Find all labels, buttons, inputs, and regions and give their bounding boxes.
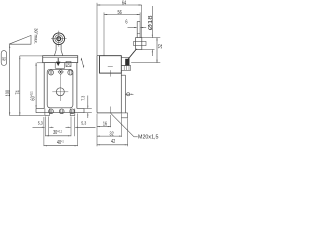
svg-text:6: 6 bbox=[125, 19, 127, 25]
svg-text:5,3: 5,3 bbox=[38, 120, 43, 126]
svg-text:40+1: 40+1 bbox=[57, 139, 64, 145]
svg-text:42: 42 bbox=[111, 138, 116, 144]
svg-text:74: 74 bbox=[15, 90, 21, 95]
svg-text:30+0,1: 30+0,1 bbox=[53, 129, 62, 135]
svg-text:16: 16 bbox=[103, 121, 108, 127]
svg-text:32: 32 bbox=[157, 44, 163, 49]
svg-text:64: 64 bbox=[122, 0, 127, 6]
svg-text:85: 85 bbox=[1, 56, 7, 60]
svg-text:100: 100 bbox=[5, 90, 11, 97]
svg-text:5,3: 5,3 bbox=[81, 120, 86, 126]
svg-text:60+0,1: 60+0,1 bbox=[29, 91, 35, 100]
svg-text:32: 32 bbox=[110, 131, 115, 137]
svg-text:30°max.: 30°max. bbox=[33, 28, 39, 44]
svg-text:56: 56 bbox=[117, 9, 122, 15]
svg-text:7,3: 7,3 bbox=[80, 95, 86, 100]
svg-text:M20x1,5: M20x1,5 bbox=[138, 134, 159, 141]
